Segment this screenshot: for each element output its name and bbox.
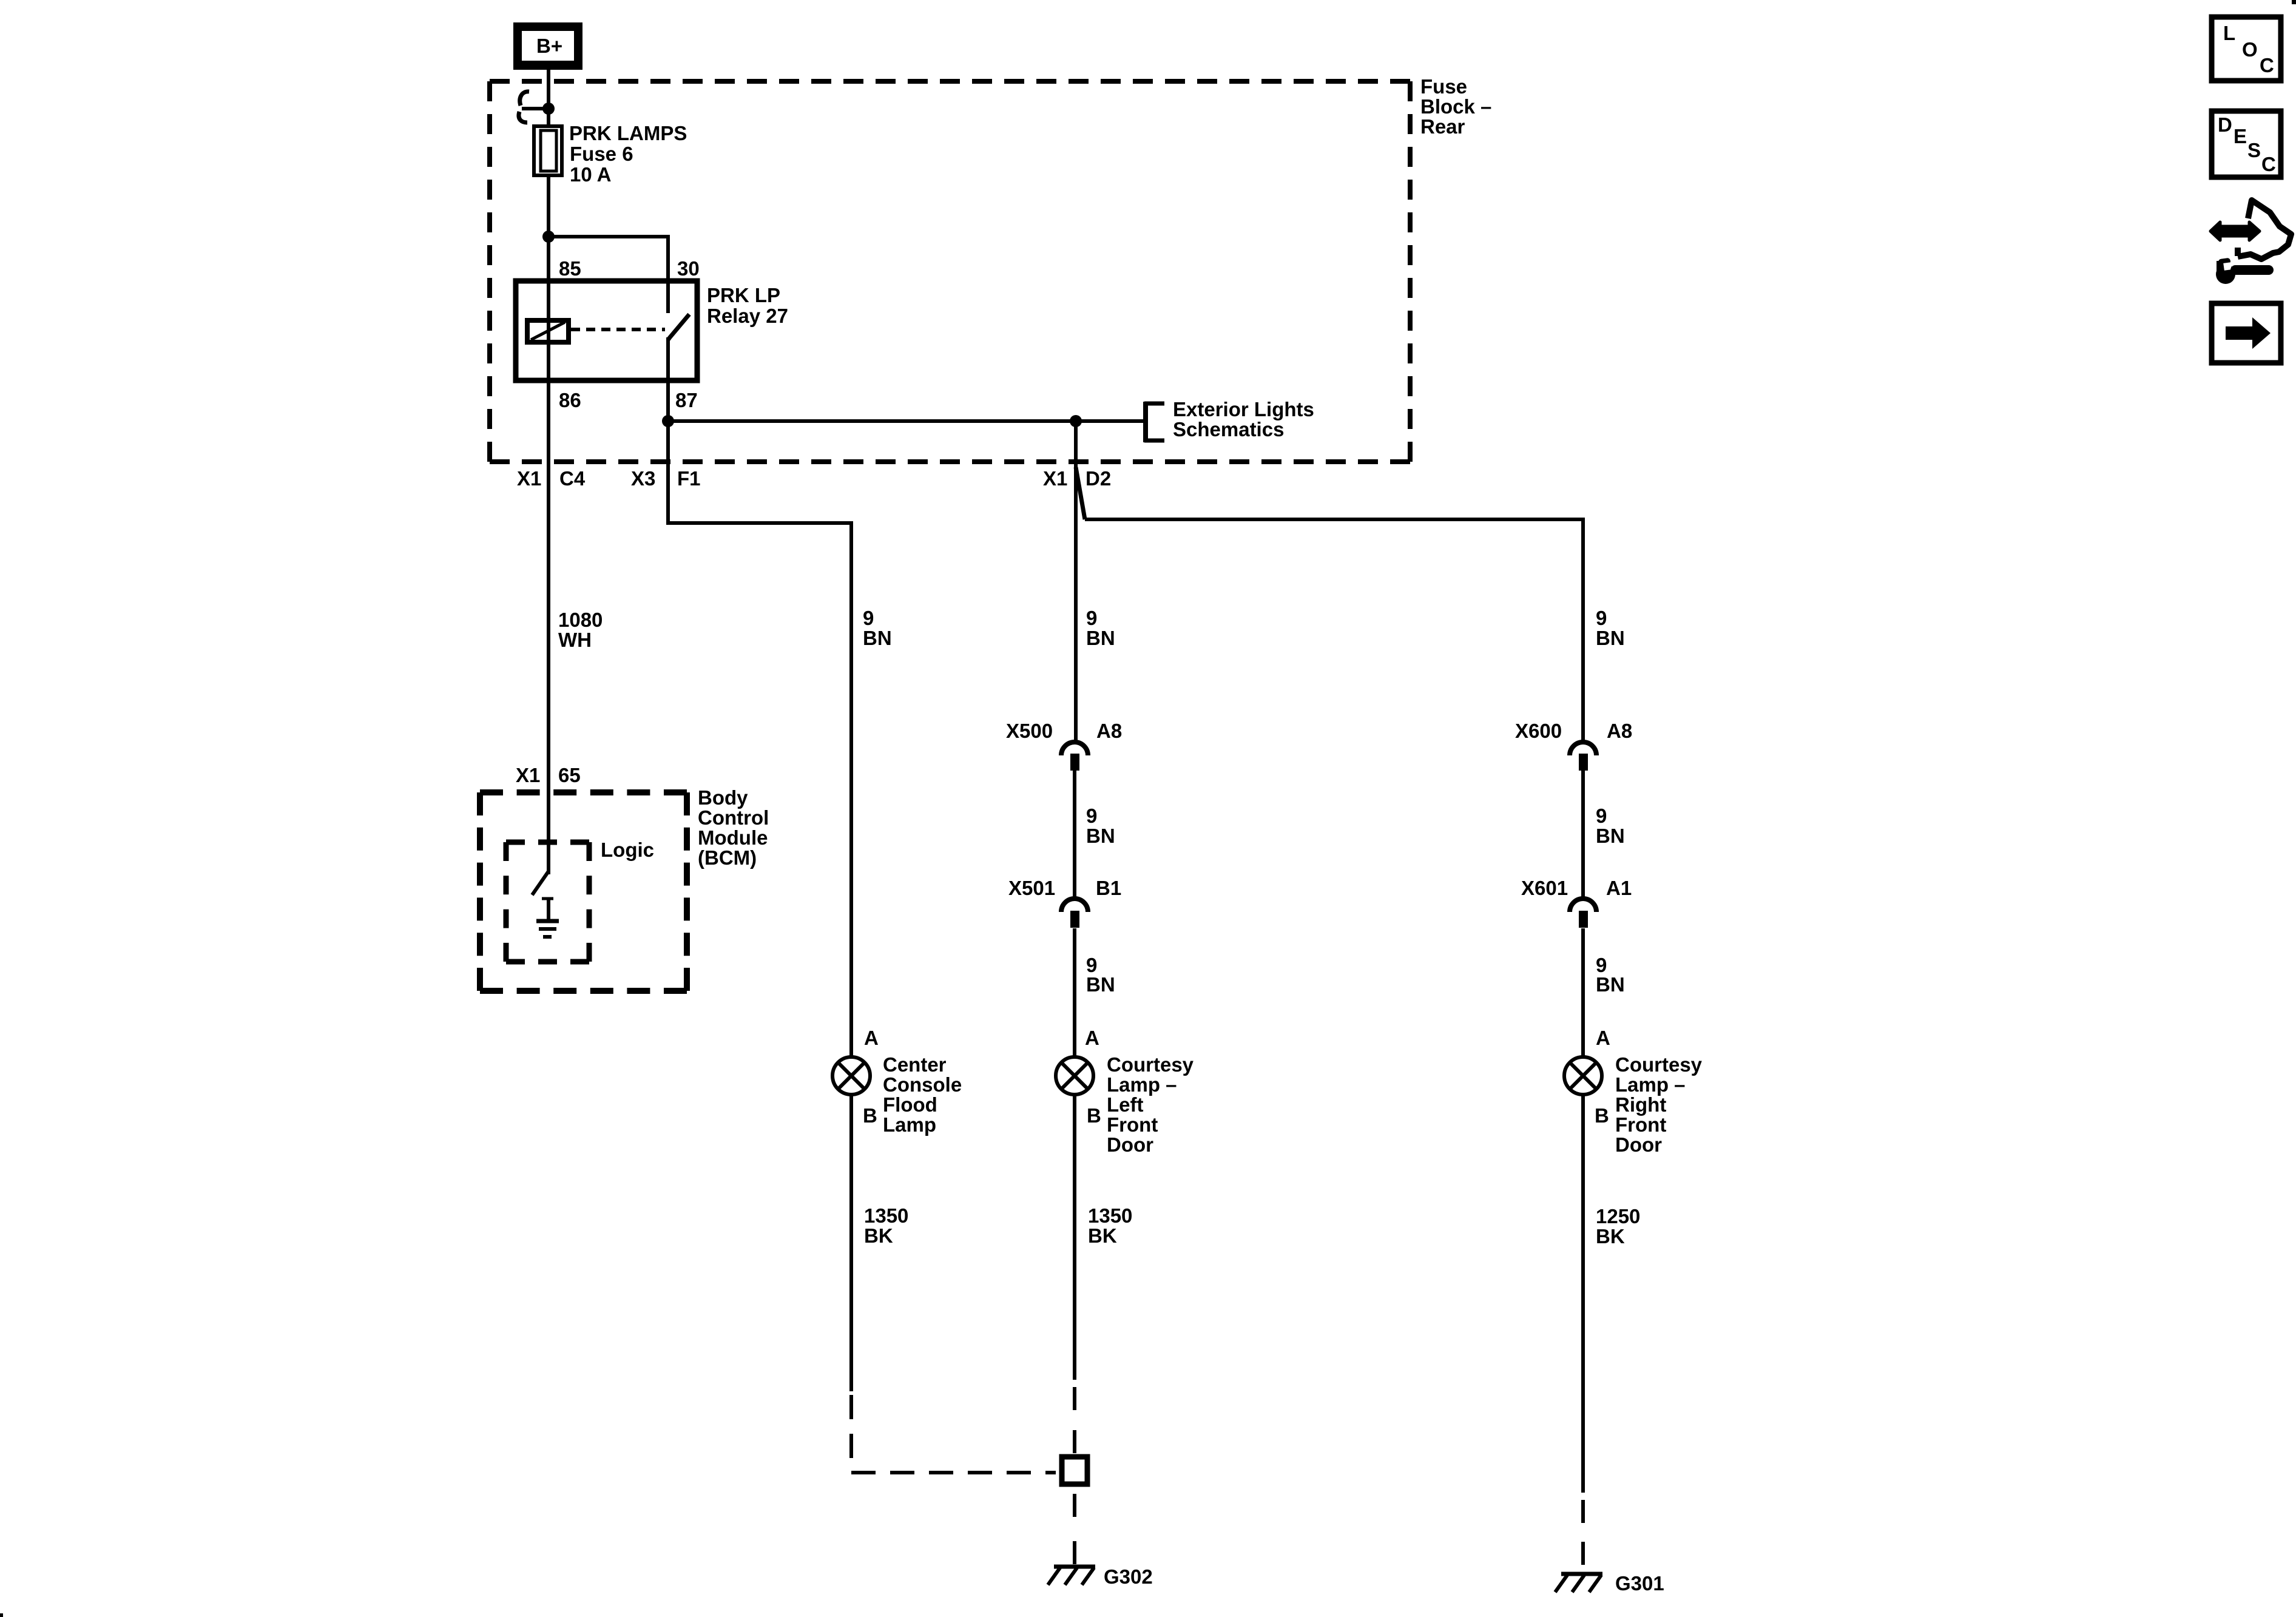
wire X501 to courtesy lamp left pin A [1073, 928, 1076, 1056]
svg-text:A: A [1596, 1027, 1610, 1049]
svg-text:X500: X500 [1006, 720, 1053, 742]
svg-text:Body: Body [698, 786, 748, 809]
logic dashed box [506, 842, 589, 962]
svg-text:Lamp –: Lamp – [1107, 1073, 1177, 1096]
svg-text:Logic: Logic [601, 839, 654, 861]
svg-text:Relay 27: Relay 27 [707, 305, 788, 327]
junction dot at X1 D2 branch [1070, 415, 1082, 427]
BCM label [698, 786, 769, 869]
svg-text:B: B [1595, 1104, 1609, 1127]
svg-text:1080: 1080 [558, 609, 603, 631]
svg-text:PRK LP: PRK LP [707, 284, 780, 306]
connector X601 A1 [1521, 877, 1632, 928]
junction dot below fuse [542, 231, 555, 243]
svg-text:D2: D2 [1086, 467, 1111, 490]
svg-text:9: 9 [1086, 607, 1097, 629]
svg-text:9: 9 [1086, 805, 1097, 827]
svg-text:O: O [2242, 38, 2258, 61]
wire label 9 BN (right courtesy column bottom) [1596, 954, 1625, 996]
svg-text:BN: BN [863, 627, 892, 649]
svg-text:X600: X600 [1515, 720, 1562, 742]
svg-text:S: S [2247, 139, 2261, 161]
splice S302 [1062, 1457, 1087, 1484]
svg-text:BK: BK [1088, 1224, 1117, 1247]
relay 27 box [516, 281, 697, 380]
svg-text:Flood: Flood [883, 1093, 937, 1116]
svg-text:A: A [1085, 1027, 1099, 1049]
svg-text:BN: BN [1596, 627, 1625, 649]
svg-text:BN: BN [1086, 973, 1115, 996]
wire slanted branch from D2 column to right lamp feed [1076, 467, 1085, 519]
svg-text:Front: Front [1107, 1113, 1158, 1136]
wire 9 BN from X3 F1 down and right to flood lamp column [668, 421, 851, 1056]
wire label 9 BN (right courtesy column top) [1596, 607, 1625, 649]
svg-text:Console: Console [883, 1073, 962, 1096]
svg-text:C4: C4 [559, 467, 586, 490]
dashed wire flood lamp to splice [851, 1395, 1056, 1473]
off-page connector bracket [1144, 402, 1164, 442]
ground G302 symbol [1048, 1567, 1095, 1585]
wire label 9 BN (left courtesy column mid) [1086, 805, 1115, 847]
terminal clip at fuse block entry [519, 92, 549, 123]
svg-text:B: B [863, 1104, 877, 1127]
relay switch blade [668, 314, 689, 340]
BCM driver switch blade [532, 871, 549, 895]
svg-text:10 A: 10 A [570, 163, 611, 186]
wire 1350 BK below courtesy lamp left [1073, 1095, 1076, 1380]
svg-text:BN: BN [1596, 973, 1625, 996]
svg-text:BN: BN [1596, 825, 1625, 847]
svg-text:Exterior Lights: Exterior Lights [1173, 398, 1314, 420]
svg-text:PRK LAMPS: PRK LAMPS [569, 122, 687, 144]
fuse block label [1420, 75, 1491, 138]
wire X601 to courtesy lamp right pin A [1581, 928, 1585, 1056]
svg-text:G302: G302 [1104, 1565, 1153, 1588]
wire 1350 BK below flood lamp [849, 1095, 853, 1391]
courtesy lamp right name label [1615, 1053, 1703, 1156]
relay label PRK LP Relay 27 [707, 284, 788, 327]
svg-text:B: B [1087, 1104, 1101, 1127]
svg-text:Courtesy: Courtesy [1107, 1053, 1194, 1076]
svg-text:Schematics: Schematics [1173, 418, 1284, 441]
wire label 1350 BK (courtesy left) [1088, 1204, 1132, 1247]
wire label 1250 BK (courtesy right) [1596, 1205, 1640, 1247]
svg-text:BN: BN [1086, 627, 1115, 649]
lamp: courtesy lamp left front door [1056, 1057, 1093, 1095]
wire label 9 BN (right courtesy column mid) [1596, 805, 1625, 847]
wire label 1350 BK (flood lamp) [864, 1204, 908, 1247]
svg-text:A: A [864, 1027, 879, 1049]
svg-text:Rear: Rear [1420, 115, 1465, 138]
wire label 9 BN (left courtesy column top) [1086, 607, 1115, 649]
svg-text:9: 9 [1596, 607, 1607, 629]
svg-text:X1: X1 [1043, 467, 1067, 490]
svg-text:87: 87 [675, 389, 698, 411]
svg-text:Left: Left [1107, 1093, 1144, 1116]
connector X1 65 labels [516, 764, 581, 786]
junction dot at pin 87 branch [662, 415, 674, 427]
page corner mark top right [2292, 0, 2296, 4]
svg-text:Right: Right [1615, 1093, 1666, 1116]
dashed wire courtesy lamp right to ground G301 [1581, 1500, 1585, 1565]
svg-text:X601: X601 [1521, 877, 1568, 899]
ground G301 symbol [1555, 1574, 1602, 1592]
svg-text:C: C [2260, 54, 2274, 76]
connector X501 B1 [1008, 877, 1121, 928]
svg-text:BK: BK [1596, 1225, 1625, 1247]
svg-text:B+: B+ [536, 35, 562, 57]
svg-text:Module: Module [698, 826, 768, 849]
lamp: center console flood lamp [832, 1057, 870, 1095]
svg-text:C: C [2261, 153, 2276, 175]
svg-text:E: E [2234, 125, 2247, 147]
wire X600 to X601 [1581, 769, 1585, 897]
svg-text:Fuse 6: Fuse 6 [570, 143, 633, 165]
svg-text:Front: Front [1615, 1113, 1666, 1136]
icon box DESC [2212, 111, 2281, 177]
svg-text:X3: X3 [631, 467, 655, 490]
svg-text:Control: Control [698, 806, 769, 829]
svg-text:65: 65 [558, 764, 581, 786]
svg-text:85: 85 [559, 257, 581, 280]
svg-text:X501: X501 [1008, 877, 1055, 899]
svg-text:9: 9 [863, 607, 874, 629]
svg-text:A8: A8 [1096, 720, 1122, 742]
connector X1 D2 labels [1043, 467, 1111, 490]
svg-text:1350: 1350 [864, 1204, 908, 1227]
svg-text:A1: A1 [1606, 877, 1632, 899]
power feed B+ [513, 22, 582, 70]
svg-text:86: 86 [559, 389, 581, 411]
icon electrical service (arrows and wrench) [2210, 200, 2291, 284]
svg-text:1250: 1250 [1596, 1205, 1640, 1227]
wire 9 BN feed to courtesy lamp right column [1085, 519, 1583, 740]
svg-text:Door: Door [1107, 1133, 1153, 1156]
wire pins 85-86 through relay and down to BCM [547, 237, 550, 874]
wire fuse to relay junction [547, 175, 550, 240]
wire 9 BN from X1 D2 down to connector X500 [1074, 421, 1078, 740]
svg-text:D: D [2218, 113, 2232, 136]
relay coil [527, 320, 569, 342]
dashed wire courtesy lamp left to splice [1073, 1387, 1076, 1453]
wire label 9 BN (flood lamp column) [863, 607, 892, 649]
svg-text:9: 9 [1596, 805, 1607, 827]
relay coil-switch dashed link [571, 328, 665, 331]
svg-text:30: 30 [677, 257, 700, 280]
svg-text:L: L [2223, 22, 2235, 44]
svg-text:Door: Door [1615, 1133, 1662, 1156]
svg-text:Lamp –: Lamp – [1615, 1073, 1686, 1096]
flood lamp name label [883, 1053, 962, 1136]
icon box forward arrow [2212, 303, 2281, 363]
svg-text:BK: BK [864, 1224, 893, 1247]
svg-text:G301: G301 [1615, 1572, 1664, 1595]
fuse block - rear dashed box [490, 81, 1410, 462]
svg-text:X1: X1 [516, 764, 540, 786]
connector X500 A8 [1006, 720, 1122, 771]
svg-text:Block –: Block – [1420, 95, 1491, 118]
svg-text:X1: X1 [517, 467, 541, 490]
lamp: courtesy lamp right front door [1564, 1057, 1602, 1095]
svg-text:Lamp: Lamp [883, 1113, 936, 1136]
svg-text:Courtesy: Courtesy [1615, 1053, 1703, 1076]
BCM internal ground [536, 899, 559, 937]
junction dot at terminal [542, 103, 555, 115]
BCM outer dashed box [480, 792, 687, 991]
page corner mark bottom left [0, 1613, 3, 1617]
dashed wire splice to ground G302 [1073, 1494, 1076, 1564]
wire label 1080 WH [558, 609, 603, 651]
svg-text:(BCM): (BCM) [698, 846, 757, 869]
fuse 6 PRK LAMPS [534, 126, 562, 175]
svg-text:Center: Center [883, 1053, 947, 1076]
exterior lights schematics label [1173, 398, 1314, 441]
wire 1250 BK below courtesy lamp right [1581, 1095, 1585, 1493]
wire junction to relay pin 30 [547, 237, 668, 313]
wire X500 to X501 [1073, 769, 1076, 897]
svg-text:Fuse: Fuse [1420, 75, 1467, 98]
fuse label [569, 122, 687, 186]
svg-text:F1: F1 [677, 467, 701, 490]
courtesy lamp left name label [1107, 1053, 1194, 1156]
svg-text:BN: BN [1086, 825, 1115, 847]
wire B+ to fuse block entry [547, 70, 550, 126]
svg-text:B1: B1 [1096, 877, 1121, 899]
connector X3 F1 labels [631, 467, 701, 490]
connector X1 C4 labels [517, 467, 586, 490]
wire label 9 BN (left courtesy column bottom) [1086, 954, 1115, 996]
wire pin 87 branch to off-page connector [666, 419, 1144, 423]
wire relay pin 87 down to branch junction [666, 337, 670, 423]
svg-text:A8: A8 [1607, 720, 1632, 742]
connector X600 A8 [1515, 720, 1632, 771]
svg-text:WH: WH [558, 629, 592, 651]
icon box LOC [2212, 17, 2281, 81]
svg-text:1350: 1350 [1088, 1204, 1132, 1227]
